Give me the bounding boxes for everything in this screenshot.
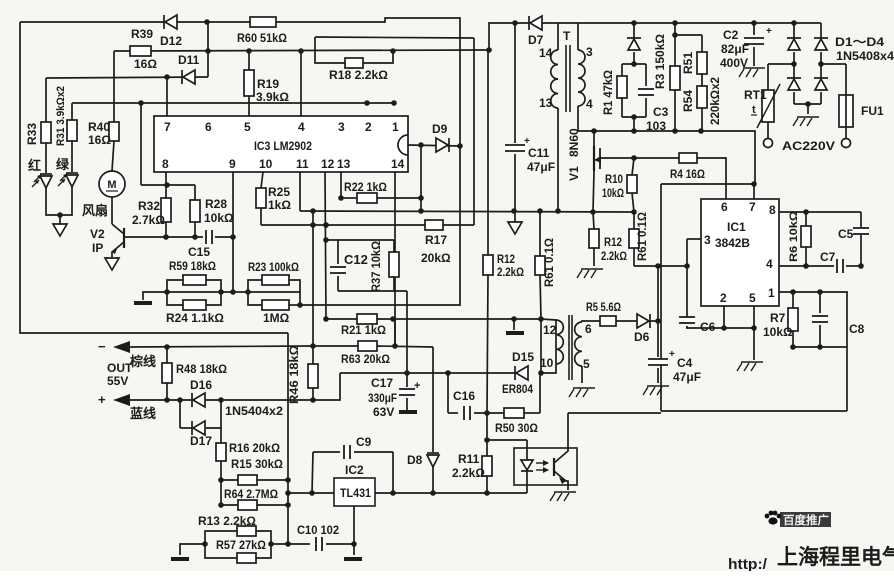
svg-text:C2: C2 bbox=[723, 28, 739, 42]
svg-text:10kΩ: 10kΩ bbox=[602, 186, 624, 200]
svg-text:V2: V2 bbox=[90, 227, 105, 241]
svg-text:103: 103 bbox=[646, 119, 666, 133]
svg-text:R40: R40 bbox=[88, 120, 110, 134]
svg-text:R12: R12 bbox=[497, 252, 515, 266]
svg-text:8: 8 bbox=[769, 203, 776, 217]
svg-text:D16: D16 bbox=[190, 378, 212, 392]
svg-text:R39: R39 bbox=[131, 27, 153, 41]
svg-text:V1: V1 bbox=[567, 166, 581, 181]
svg-text:D15: D15 bbox=[512, 350, 534, 364]
svg-text:6: 6 bbox=[205, 120, 212, 134]
svg-text:55V: 55V bbox=[107, 374, 128, 388]
svg-text:C3: C3 bbox=[653, 105, 669, 119]
svg-text:C7: C7 bbox=[820, 250, 836, 264]
svg-text:R33: R33 bbox=[25, 123, 39, 145]
svg-text:R46 18kΩ: R46 18kΩ bbox=[287, 345, 301, 404]
svg-text:220kΩx2: 220kΩx2 bbox=[708, 77, 722, 125]
svg-text:63V: 63V bbox=[373, 405, 394, 419]
svg-text:1: 1 bbox=[392, 120, 399, 134]
svg-text:IC1: IC1 bbox=[727, 220, 746, 234]
svg-text:C12: C12 bbox=[344, 252, 368, 267]
svg-text:FU1: FU1 bbox=[861, 104, 884, 118]
svg-text:8: 8 bbox=[162, 157, 169, 171]
svg-text:R15 30kΩ: R15 30kΩ bbox=[231, 457, 283, 471]
svg-text:R60 51kΩ: R60 51kΩ bbox=[237, 31, 287, 45]
svg-text:+: + bbox=[669, 349, 675, 360]
svg-text:4: 4 bbox=[766, 257, 773, 271]
svg-text:1: 1 bbox=[768, 286, 775, 300]
svg-text:RT1: RT1 bbox=[744, 88, 767, 102]
svg-text:R28: R28 bbox=[205, 197, 227, 211]
svg-text:R6 10kΩ: R6 10kΩ bbox=[788, 211, 800, 262]
svg-text:3: 3 bbox=[586, 45, 593, 59]
svg-text:R57 27kΩ: R57 27kΩ bbox=[216, 538, 266, 552]
svg-text:R12: R12 bbox=[604, 235, 622, 249]
svg-text:ER804: ER804 bbox=[502, 382, 533, 396]
svg-text:6: 6 bbox=[721, 200, 728, 214]
svg-text:C15: C15 bbox=[188, 245, 210, 259]
svg-text:6: 6 bbox=[585, 322, 592, 336]
svg-text:R22 1kΩ: R22 1kΩ bbox=[344, 180, 387, 194]
svg-text:R10: R10 bbox=[605, 172, 623, 186]
svg-text:3: 3 bbox=[338, 120, 345, 134]
svg-text:R11: R11 bbox=[458, 452, 480, 466]
svg-text:红: 红 bbox=[28, 158, 41, 173]
svg-text:R18 2.2kΩ: R18 2.2kΩ bbox=[329, 68, 388, 82]
svg-text:IP: IP bbox=[92, 241, 103, 255]
svg-text:R50 30Ω: R50 30Ω bbox=[495, 421, 538, 435]
svg-text:t: t bbox=[752, 104, 756, 116]
svg-text:R24 1.1kΩ: R24 1.1kΩ bbox=[166, 311, 224, 325]
svg-text:AC220V: AC220V bbox=[782, 139, 835, 153]
svg-text:R19: R19 bbox=[257, 77, 279, 91]
svg-text:2.2kΩ: 2.2kΩ bbox=[601, 249, 627, 263]
svg-text:2.2kΩ: 2.2kΩ bbox=[452, 466, 485, 480]
svg-text:7: 7 bbox=[749, 200, 756, 214]
svg-text:R37 10kΩ: R37 10kΩ bbox=[369, 241, 383, 292]
svg-text:C4: C4 bbox=[677, 356, 693, 370]
svg-text:R54: R54 bbox=[681, 90, 695, 112]
svg-text:47μF: 47μF bbox=[673, 370, 701, 384]
svg-text:百度推广: 百度推广 bbox=[783, 513, 829, 527]
svg-text:7: 7 bbox=[164, 120, 171, 134]
svg-text:14: 14 bbox=[539, 46, 553, 60]
svg-text:C10 102: C10 102 bbox=[297, 523, 339, 537]
svg-text:10: 10 bbox=[259, 157, 273, 171]
svg-text:T: T bbox=[563, 29, 571, 43]
svg-text:R7: R7 bbox=[770, 311, 786, 325]
svg-text:蓝线: 蓝线 bbox=[130, 406, 156, 421]
svg-text:5: 5 bbox=[244, 120, 251, 134]
svg-text:R48 18kΩ: R48 18kΩ bbox=[176, 362, 227, 376]
svg-text:13: 13 bbox=[337, 157, 351, 171]
svg-text:R61 0.1Ω: R61 0.1Ω bbox=[635, 212, 649, 261]
svg-text:+: + bbox=[766, 26, 772, 37]
svg-text:13: 13 bbox=[539, 96, 553, 110]
svg-text:10: 10 bbox=[540, 356, 554, 370]
svg-text:棕线: 棕线 bbox=[129, 354, 156, 369]
svg-text:R1 47kΩ: R1 47kΩ bbox=[601, 70, 615, 115]
svg-text:C16: C16 bbox=[453, 389, 475, 403]
svg-text:R13 2.2kΩ: R13 2.2kΩ bbox=[198, 514, 256, 528]
svg-text:IC3 LM2902: IC3 LM2902 bbox=[254, 139, 312, 153]
svg-text:1N5408x4: 1N5408x4 bbox=[836, 49, 894, 63]
svg-text:R51: R51 bbox=[681, 52, 695, 74]
svg-text:D12: D12 bbox=[160, 34, 182, 48]
svg-text:C8: C8 bbox=[849, 322, 865, 336]
svg-text:2: 2 bbox=[720, 291, 727, 305]
svg-text:R59 18kΩ: R59 18kΩ bbox=[169, 259, 216, 273]
svg-text:5: 5 bbox=[583, 357, 590, 371]
svg-text:16Ω: 16Ω bbox=[88, 133, 111, 147]
svg-text:OUT: OUT bbox=[107, 361, 133, 375]
svg-text:12: 12 bbox=[321, 157, 335, 171]
svg-text:D11: D11 bbox=[178, 53, 200, 67]
svg-text:R32: R32 bbox=[138, 199, 160, 213]
svg-text:D8: D8 bbox=[407, 453, 423, 467]
svg-text:R16 20kΩ: R16 20kΩ bbox=[229, 441, 280, 455]
svg-text:R61 0.1Ω: R61 0.1Ω bbox=[542, 238, 556, 287]
svg-text:C17: C17 bbox=[371, 376, 393, 390]
svg-text:http:/: http:/ bbox=[728, 556, 768, 571]
svg-text:3842B: 3842B bbox=[715, 236, 750, 250]
svg-text:TL431: TL431 bbox=[340, 486, 371, 500]
svg-text:3.9kΩ: 3.9kΩ bbox=[256, 90, 289, 104]
svg-text:D17: D17 bbox=[190, 434, 212, 448]
svg-text:C5: C5 bbox=[838, 227, 854, 241]
svg-text:14: 14 bbox=[391, 157, 405, 171]
svg-text:上海程里电气: 上海程里电气 bbox=[777, 545, 894, 569]
svg-text:47μF: 47μF bbox=[527, 160, 555, 174]
svg-text:1N5404x2: 1N5404x2 bbox=[225, 404, 283, 418]
svg-text:R23 100kΩ: R23 100kΩ bbox=[248, 260, 299, 274]
svg-text:C9: C9 bbox=[356, 435, 372, 449]
svg-text:2.2kΩ: 2.2kΩ bbox=[497, 265, 524, 279]
svg-text:C6: C6 bbox=[700, 320, 716, 334]
svg-text:8N60: 8N60 bbox=[567, 128, 581, 157]
svg-text:R17: R17 bbox=[425, 233, 447, 247]
svg-text:1MΩ: 1MΩ bbox=[263, 311, 290, 325]
svg-text:1kΩ: 1kΩ bbox=[268, 198, 291, 212]
svg-text:R25: R25 bbox=[268, 185, 290, 199]
svg-text:R64 2.7MΩ: R64 2.7MΩ bbox=[224, 487, 278, 501]
svg-text:+: + bbox=[414, 380, 420, 392]
svg-text:+: + bbox=[98, 392, 106, 407]
svg-text:D1～D4: D1～D4 bbox=[835, 35, 884, 49]
svg-text:R4 16Ω: R4 16Ω bbox=[670, 167, 705, 181]
svg-text:R63 20kΩ: R63 20kΩ bbox=[341, 352, 390, 366]
svg-text:3: 3 bbox=[704, 233, 711, 247]
svg-text:330μF: 330μF bbox=[368, 391, 397, 405]
svg-text:4: 4 bbox=[298, 120, 305, 134]
svg-text:R5 5.6Ω: R5 5.6Ω bbox=[586, 300, 621, 314]
svg-text:10kΩ: 10kΩ bbox=[763, 325, 793, 339]
svg-text:9: 9 bbox=[229, 157, 236, 171]
svg-text:M: M bbox=[107, 179, 116, 191]
svg-text:10kΩ: 10kΩ bbox=[204, 211, 234, 225]
svg-text:2.7kΩ: 2.7kΩ bbox=[132, 213, 165, 227]
svg-text:−: − bbox=[98, 339, 106, 354]
svg-text:11: 11 bbox=[296, 157, 309, 171]
svg-text:D6: D6 bbox=[634, 330, 650, 344]
svg-text:D7: D7 bbox=[528, 33, 544, 47]
svg-text:5: 5 bbox=[749, 291, 756, 305]
svg-text:绿: 绿 bbox=[56, 157, 70, 172]
svg-text:IC2: IC2 bbox=[345, 463, 364, 477]
svg-text:16Ω: 16Ω bbox=[134, 57, 157, 71]
svg-text:R21 1kΩ: R21 1kΩ bbox=[341, 323, 386, 337]
svg-text:20kΩ: 20kΩ bbox=[421, 251, 451, 265]
svg-text:C11: C11 bbox=[528, 146, 550, 160]
svg-text:2: 2 bbox=[365, 120, 372, 134]
svg-text:D9: D9 bbox=[432, 122, 448, 136]
svg-text:R31 3.9kΩx2: R31 3.9kΩx2 bbox=[55, 86, 67, 146]
svg-text:4: 4 bbox=[586, 97, 593, 111]
svg-text:12: 12 bbox=[543, 323, 557, 337]
svg-text:R3 150kΩ: R3 150kΩ bbox=[653, 34, 667, 89]
svg-text:风扇: 风扇 bbox=[82, 203, 108, 218]
